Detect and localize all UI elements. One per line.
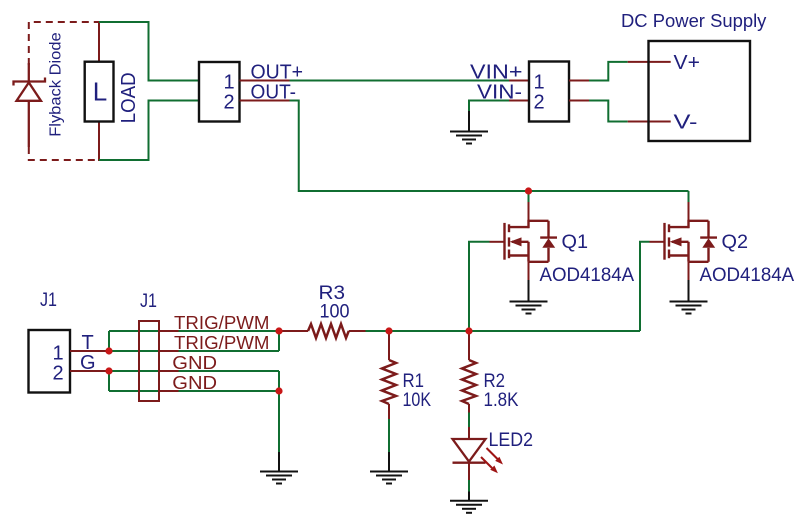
wire green to V+ [589, 62, 628, 81]
wire (maroon) load top pin [98, 21, 100, 62]
svg-text:2: 2 [53, 362, 64, 384]
svg-text:2: 2 [534, 92, 545, 114]
pin header J1 rectangle [139, 321, 159, 401]
load box [85, 62, 114, 122]
svg-text:V+: V+ [674, 52, 700, 74]
svg-text:2: 2 [224, 92, 235, 114]
wire green row4 GND [109, 390, 279, 392]
svg-text:OUT-: OUT- [251, 82, 297, 104]
pin stub header row1 [159, 330, 179, 332]
junction dot drain rail [525, 187, 532, 194]
wire green row3 GND [109, 370, 279, 372]
wire green R1 to ground [388, 419, 390, 453]
ground stem (LED2) [468, 492, 470, 501]
wire green Q2 drain [688, 191, 690, 202]
pin stub VIN box right 2 [569, 100, 589, 102]
svg-text:100: 100 [320, 302, 350, 323]
pin stub J1-1 [70, 350, 109, 352]
wire green VIN- ground branch [469, 101, 509, 113]
wire green OUT- down to drain rail [290, 101, 689, 192]
svg-text:TRIG/PWM: TRIG/PWM [174, 333, 270, 353]
flyback diode dashed box [29, 22, 99, 160]
junction dot row1 right [275, 327, 282, 334]
DC power supply box [649, 41, 751, 141]
svg-text:Q2: Q2 [722, 231, 749, 253]
svg-text:V-: V- [674, 111, 698, 133]
ground (LED2) [450, 501, 488, 513]
ground (J1 GND) [260, 472, 298, 484]
wire green to V- [589, 101, 628, 122]
pin maroon Q2 drain [688, 202, 690, 221]
svg-text:10K: 10K [403, 390, 432, 411]
ground stem (J1 GND) [278, 452, 280, 472]
svg-text:1: 1 [53, 342, 64, 364]
pin stub VIN- [509, 100, 529, 102]
junction dot R2 top [465, 327, 472, 334]
connector box J1 [29, 330, 71, 393]
wire green Q2 gate [640, 242, 650, 331]
svg-text:R2: R2 [484, 370, 506, 392]
wire green vertical rows1-2 left [108, 331, 110, 351]
wire green vertical rows1-2 right [278, 331, 280, 351]
transistor Q1 (MOSFET with body diode) [490, 220, 558, 281]
wire green LED2 to ground [468, 480, 470, 493]
svg-text:1: 1 [224, 72, 235, 94]
resistor R1 [382, 331, 396, 419]
pin stub OUT+ [240, 80, 290, 82]
wire green R2 to LED2 [468, 413, 470, 428]
svg-text:R1: R1 [403, 370, 425, 392]
svg-text:1.8K: 1.8K [484, 390, 519, 411]
svg-text:LOAD: LOAD [118, 72, 140, 123]
ground (VIN-) [450, 132, 488, 144]
wire green R3 to Q2 gate [366, 330, 641, 332]
pin stub VIN+ [509, 80, 529, 82]
pin V+ [628, 61, 671, 63]
svg-text:GND: GND [172, 373, 217, 393]
resistor R2 [462, 331, 476, 413]
wire (maroon) load bottom pin [98, 122, 100, 162]
svg-text:1: 1 [534, 72, 545, 94]
svg-text:J1: J1 [40, 289, 57, 311]
wire green vertical rows3-4 left [108, 371, 110, 391]
ground (Q2) [670, 302, 708, 314]
junction dot J1 pin 2 [105, 367, 112, 374]
wire green Q1 drain [528, 191, 530, 202]
led arrows [481, 448, 503, 473]
pin stub header row4 [159, 390, 179, 392]
svg-text:GND: GND [172, 353, 217, 373]
wire green vertical rows3-4 right, to ground [278, 371, 280, 453]
transistor Q2 (MOSFET with body diode) [650, 220, 718, 281]
junction dot row4 right [275, 387, 282, 394]
ground (R1) [370, 472, 408, 484]
ground stem (VIN-) [468, 111, 470, 132]
svg-text:L: L [93, 77, 107, 107]
wire green Q1 gate [469, 242, 490, 331]
pin V- [628, 121, 671, 123]
pin stub VIN box right 1 [569, 80, 589, 82]
led LED2 [453, 427, 486, 481]
ground stem (R1) [388, 452, 390, 472]
wire green row1 TRIG/PWM [109, 330, 279, 332]
wire green: load bottom to connector pin2 [99, 101, 199, 161]
svg-text:AOD4184A: AOD4184A [700, 265, 795, 286]
svg-text:DC Power Supply: DC Power Supply [621, 11, 766, 31]
pin stub OUT- [240, 100, 290, 102]
wire green row2 TRIG/PWM [109, 350, 279, 352]
wire black Q2 source to ground [688, 280, 690, 302]
wire green OUT+ to VIN+ [290, 80, 510, 82]
wire green: load top to connector pin1 [99, 22, 199, 81]
svg-text:AOD4184A: AOD4184A [540, 265, 635, 286]
svg-text:J1: J1 [140, 290, 157, 312]
junction dot J1 pin 1 [105, 347, 112, 354]
pin stub header row2 [159, 350, 179, 352]
flyback diode (schottky, cathode up) [14, 63, 46, 147]
svg-text:LED2: LED2 [489, 429, 534, 451]
wire black Q1 source to ground [528, 280, 530, 302]
svg-text:Q1: Q1 [562, 231, 589, 253]
pin maroon Q1 drain [528, 202, 530, 221]
junction dot R1 top [385, 327, 392, 334]
connector box OUT [199, 62, 240, 122]
ground (Q1) [510, 302, 548, 314]
svg-text:TRIG/PWM: TRIG/PWM [174, 313, 270, 333]
connector box VIN [529, 62, 569, 122]
resistor R3 [282, 324, 366, 338]
pin header J1 outline (over wires) [139, 321, 159, 401]
svg-text:Flyback Diode: Flyback Diode [48, 32, 65, 137]
pin stub header row3 [159, 370, 179, 372]
pin stub J1-2 [70, 370, 109, 372]
